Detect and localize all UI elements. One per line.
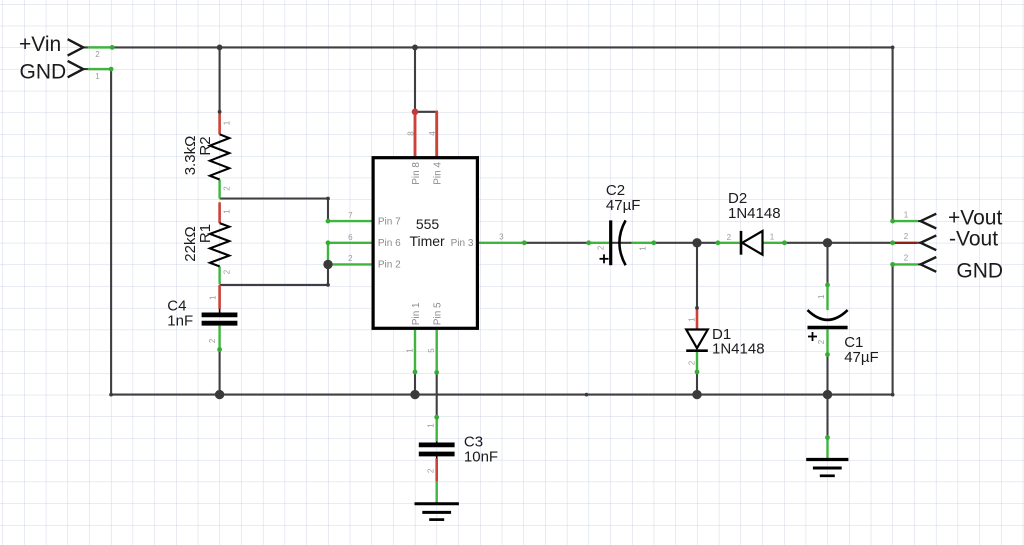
svg-text:Pin 6: Pin 6 xyxy=(378,238,401,249)
svg-text:2: 2 xyxy=(688,360,697,365)
svg-text:5: 5 xyxy=(427,348,436,353)
svg-text:1: 1 xyxy=(223,209,232,214)
svg-text:Pin 2: Pin 2 xyxy=(378,260,401,271)
svg-text:2: 2 xyxy=(348,254,353,263)
svg-text:2: 2 xyxy=(597,245,606,250)
svg-text:Pin 7: Pin 7 xyxy=(378,216,401,227)
svg-text:R2: R2 xyxy=(197,136,214,155)
svg-text:Timer: Timer xyxy=(409,233,445,249)
svg-text:R1: R1 xyxy=(197,224,214,243)
svg-text:GND: GND xyxy=(956,260,1003,283)
svg-text:22kΩ: 22kΩ xyxy=(182,226,199,261)
svg-text:2: 2 xyxy=(727,233,732,242)
svg-text:555: 555 xyxy=(416,216,440,232)
svg-text:1: 1 xyxy=(817,294,826,299)
svg-text:1: 1 xyxy=(95,72,100,81)
svg-text:2: 2 xyxy=(904,254,909,263)
svg-text:8: 8 xyxy=(407,131,416,136)
svg-text:Pin 5: Pin 5 xyxy=(433,302,444,325)
svg-text:1: 1 xyxy=(639,246,648,251)
svg-text:1: 1 xyxy=(904,210,909,219)
svg-text:6: 6 xyxy=(348,233,353,242)
svg-text:1N4148: 1N4148 xyxy=(728,205,781,222)
svg-text:2: 2 xyxy=(426,468,435,473)
svg-text:2: 2 xyxy=(904,232,909,241)
svg-text:GND: GND xyxy=(20,61,67,84)
svg-text:2: 2 xyxy=(817,339,826,344)
svg-text:47µF: 47µF xyxy=(844,349,879,366)
svg-text:3.3kΩ: 3.3kΩ xyxy=(182,136,199,176)
svg-text:7: 7 xyxy=(348,211,353,220)
svg-text:1N4148: 1N4148 xyxy=(712,340,765,357)
svg-text:2: 2 xyxy=(223,186,232,191)
svg-text:Pin 4: Pin 4 xyxy=(433,162,444,185)
svg-text:2: 2 xyxy=(223,269,232,274)
svg-text:Pin 8: Pin 8 xyxy=(411,162,422,185)
svg-text:1: 1 xyxy=(688,317,697,322)
svg-text:1: 1 xyxy=(427,423,436,428)
svg-text:1: 1 xyxy=(406,348,415,353)
svg-text:10nF: 10nF xyxy=(464,449,498,466)
svg-text:1nF: 1nF xyxy=(167,313,193,330)
svg-text:Pin 3: Pin 3 xyxy=(451,238,474,249)
svg-text:3: 3 xyxy=(499,233,504,242)
svg-text:47µF: 47µF xyxy=(606,197,641,214)
svg-text:1: 1 xyxy=(770,232,775,241)
svg-text:1: 1 xyxy=(223,120,232,125)
svg-text:4: 4 xyxy=(428,131,437,136)
svg-text:Pin 1: Pin 1 xyxy=(411,302,422,325)
svg-text:2: 2 xyxy=(95,50,100,59)
svg-text:1: 1 xyxy=(208,295,217,300)
svg-text:+Vout: +Vout xyxy=(948,206,1002,229)
svg-text:-Vout: -Vout xyxy=(949,228,998,251)
svg-text:+Vin: +Vin xyxy=(19,33,61,56)
svg-text:2: 2 xyxy=(208,338,217,343)
